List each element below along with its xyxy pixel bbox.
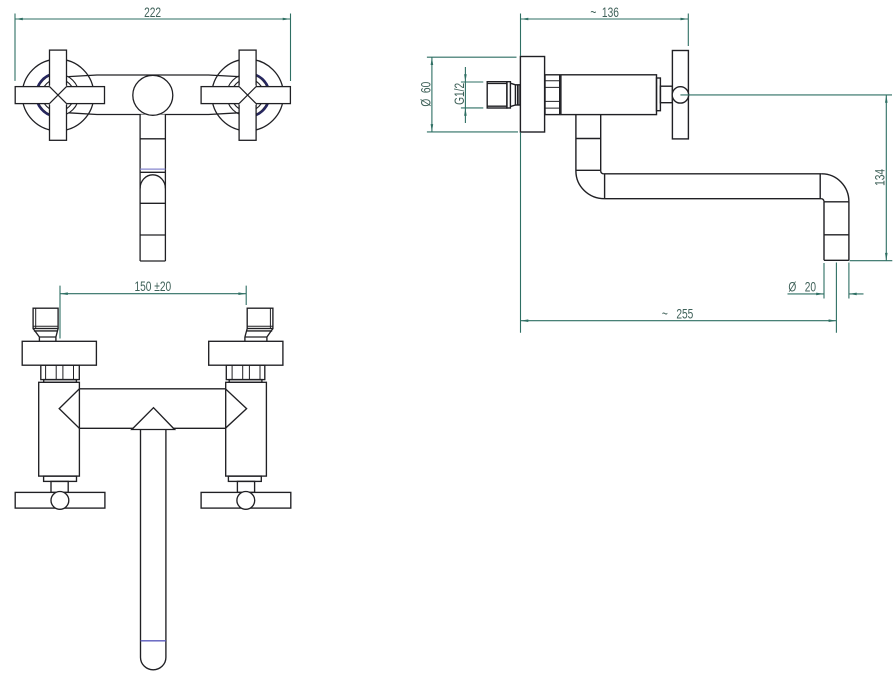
svg-text:134: 134 [872,169,888,186]
svg-text:G1/2: G1/2 [452,83,468,105]
svg-text:Ø 60: Ø 60 [418,81,434,106]
svg-text:150 ±20: 150 ±20 [134,279,171,295]
svg-text:222: 222 [144,5,161,21]
svg-text:Ø 20: Ø 20 [788,279,816,295]
svg-text:~ 255: ~ 255 [662,306,694,322]
svg-text:~ 136: ~ 136 [590,5,619,21]
